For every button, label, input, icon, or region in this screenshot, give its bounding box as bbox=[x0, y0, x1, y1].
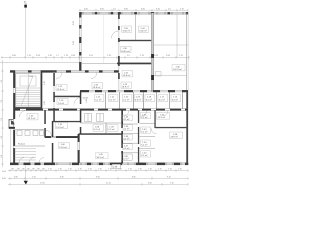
WC stalls x84-104 y113-123 bbox=[85, 114, 104, 122]
svg-text:5.2 m²: 5.2 m² bbox=[141, 116, 147, 119]
svg-text:5.10: 5.10 bbox=[170, 183, 174, 185]
left inner wall line x10.8 bbox=[10, 129, 12, 163]
door arc above wall y137 bbox=[46, 130, 52, 136]
bath fixtures row1 bbox=[17, 131, 44, 136]
svg-text:15.9 m²: 15.9 m² bbox=[158, 116, 166, 119]
bath wall y146 x14-45 bbox=[14, 145, 45, 147]
svg-text:4.2 m²: 4.2 m² bbox=[123, 118, 129, 121]
svg-text:5.2 m²: 5.2 m² bbox=[141, 130, 147, 133]
svg-text:13.9 m²: 13.9 m² bbox=[56, 126, 64, 129]
bottom row1 numbers bbox=[11, 169, 182, 171]
svg-text:29.9 m²: 29.9 m² bbox=[171, 135, 179, 138]
wall y127.5 x139-188 bbox=[151, 127, 188, 134]
svg-text:5.2 m²: 5.2 m² bbox=[108, 128, 114, 131]
svg-text:18.63 m²: 18.63 m² bbox=[121, 50, 130, 53]
svg-text:4.2 m²: 4.2 m² bbox=[123, 147, 129, 150]
svg-text:.88: .88 bbox=[27, 169, 30, 171]
door arcs above bottom wall bbox=[19, 158, 44, 163]
svg-text:9.10: 9.10 bbox=[167, 177, 171, 179]
svg-text:13.9 m²: 13.9 m² bbox=[57, 88, 65, 91]
wall y40.5 x119-152 bbox=[119, 40, 152, 41]
bottom dimension row3 bbox=[8, 183, 188, 186]
svg-text:1.76: 1.76 bbox=[148, 169, 152, 171]
svg-text:1.76: 1.76 bbox=[128, 169, 132, 171]
svg-text:3.80: 3.80 bbox=[14, 177, 18, 179]
svg-text:17.56: 17.56 bbox=[40, 183, 45, 185]
corridor south wall y121.5 x52-80.5 bbox=[52, 121, 81, 122]
bottom left small text bbox=[2, 171, 7, 180]
svg-text:1.76: 1.76 bbox=[158, 169, 162, 171]
partition x135.5 y14-40 bbox=[135, 14, 137, 40]
vertical wall x138.5 y110-163 bbox=[138, 110, 139, 164]
bottom row2 numbers bbox=[14, 177, 171, 179]
svg-text:1.76: 1.76 bbox=[68, 169, 72, 171]
room labels middle row bbox=[95, 95, 181, 102]
svg-text:1.76: 1.76 bbox=[138, 169, 142, 171]
mid dimension line y57.5 bbox=[1, 56, 189, 59]
vertical wall x155 y110-128 bbox=[154, 110, 155, 128]
stairs bbox=[16, 74, 41, 108]
bottom dimension row1 bbox=[8, 169, 188, 172]
svg-text:9.4 m²: 9.4 m² bbox=[159, 98, 165, 101]
vertical wall x80.5 y92-134 bbox=[80, 92, 82, 134]
svg-text:5.2 m²: 5.2 m² bbox=[109, 98, 115, 101]
svg-text:1.76: 1.76 bbox=[88, 169, 92, 171]
svg-text:1.76: 1.76 bbox=[98, 169, 102, 171]
svg-text:7.9 m²: 7.9 m² bbox=[58, 102, 64, 105]
svg-text:1.88: 1.88 bbox=[44, 101, 46, 105]
divider x106 y123-134 bbox=[105, 123, 107, 134]
svg-text:18.9 m²: 18.9 m² bbox=[93, 86, 101, 89]
svg-text:8.60: 8.60 bbox=[132, 177, 136, 179]
svg-text:.88: .88 bbox=[11, 169, 14, 171]
room labels left bbox=[27, 85, 118, 159]
faint partition x103.5 in big room bbox=[103, 14, 105, 63]
svg-text:14.2 m²: 14.2 m² bbox=[28, 117, 36, 120]
svg-text:1.05: 1.05 bbox=[29, 76, 33, 78]
hall 1.30 thin lines bbox=[154, 14, 188, 76]
ramp hatch strip bbox=[15, 149, 37, 160]
svg-text:9.4 m²: 9.4 m² bbox=[172, 98, 178, 101]
bottom dimension row2 bbox=[8, 177, 188, 180]
svg-text:1.76: 1.76 bbox=[168, 169, 172, 171]
stairwell bottom wall bbox=[14, 107, 42, 109]
svg-text:4.2 m²: 4.2 m² bbox=[123, 128, 129, 131]
upper-left outer wall x80 y13-71 bbox=[79, 13, 81, 71]
svg-text:5.2 m²: 5.2 m² bbox=[95, 98, 101, 101]
top dimension line bbox=[79, 9, 188, 12]
svg-text:8.40: 8.40 bbox=[60, 177, 64, 179]
left entry jog with arc bbox=[9, 120, 15, 129]
svg-text:1.76: 1.76 bbox=[58, 169, 62, 171]
vertical wall x54 y71-121.5 bbox=[53, 71, 55, 122]
wall y91 x80-188 bbox=[80, 90, 188, 92]
section marker T1 top bbox=[24, 2, 27, 57]
svg-text:Rampe: Rampe bbox=[18, 144, 26, 146]
stairwell right wall x41.5 bbox=[41, 72, 43, 109]
outside pavement line y62.5 bbox=[0, 62, 79, 64]
vertical wall x52.5 y121-163 bbox=[52, 121, 54, 164]
svg-text:.88: .88 bbox=[22, 169, 25, 171]
svg-text:4.2 m²: 4.2 m² bbox=[123, 137, 129, 140]
top outer wall y13 x80-188 bbox=[79, 12, 188, 14]
svg-text:5.2 m²: 5.2 m² bbox=[141, 143, 147, 146]
svg-text:.88: .88 bbox=[17, 169, 20, 171]
svg-text:2.43: 2.43 bbox=[44, 81, 46, 85]
svg-text:12.15: 12.15 bbox=[106, 183, 111, 185]
svg-text:5.60 m²: 5.60 m² bbox=[123, 29, 131, 32]
interior vertical wall x119 y14-91 bbox=[118, 14, 120, 91]
vertical dim labels along x80 wall bbox=[73, 20, 75, 45]
svg-text:.88: .88 bbox=[42, 169, 45, 171]
svg-text:5.2 m²: 5.2 m² bbox=[123, 98, 129, 101]
mid dimension numbers bbox=[12, 55, 184, 57]
bath wall y129.5 x14-45 bbox=[14, 129, 45, 131]
section marker bottom bbox=[24, 166, 28, 185]
svg-text:.88: .88 bbox=[37, 169, 40, 171]
svg-text:9.60: 9.60 bbox=[96, 177, 100, 179]
svg-text:9.4 m²: 9.4 m² bbox=[146, 98, 152, 101]
room labels right cluster bbox=[122, 113, 183, 161]
room labels upper bbox=[92, 26, 185, 89]
svg-text:1.76: 1.76 bbox=[178, 169, 182, 171]
left outer wall x14 y71-163 bbox=[13, 71, 15, 164]
svg-text:1.76: 1.76 bbox=[78, 169, 82, 171]
svg-text:5.60 m²: 5.60 m² bbox=[139, 29, 147, 32]
svg-text:3.85: 3.85 bbox=[148, 183, 152, 185]
svg-text:1.76: 1.76 bbox=[108, 169, 112, 171]
wall y96.5 x53.5-80.5 bbox=[54, 96, 82, 98]
svg-text:101.9 m²: 101.9 m² bbox=[173, 68, 182, 71]
col2 partitions x139-155 bbox=[140, 124, 156, 149]
svg-text:1.76: 1.76 bbox=[118, 169, 122, 171]
central gray double wall x152.5 y13-92 bbox=[151, 13, 161, 92]
svg-text:5.2 m²: 5.2 m² bbox=[141, 154, 147, 157]
vertical wall x45 y110-137 bbox=[44, 110, 46, 138]
door arcs below corridor wall bbox=[20, 73, 169, 118]
right outer wall x187 bbox=[186, 13, 188, 165]
svg-text:13.9 m²: 13.9 m² bbox=[59, 146, 67, 149]
vertical wall x78.5 y134-163 bbox=[78, 134, 80, 163]
svg-text:4.2 m²: 4.2 m² bbox=[122, 157, 128, 160]
small rooms row dividers y92-109 bbox=[106, 92, 183, 109]
wall y71 x10-119 bbox=[10, 70, 119, 72]
svg-text:30.5 m²: 30.5 m² bbox=[97, 156, 105, 159]
col1 partitions x122-138 bbox=[123, 124, 138, 153]
bottom wall window jamb ticks bbox=[57, 162, 181, 165]
top dimension numbers bbox=[84, 9, 185, 11]
corridor wall y109.5 x14-188 bbox=[14, 109, 188, 111]
svg-text:5.2 m²: 5.2 m² bbox=[94, 128, 100, 131]
svg-text:±0.00: ±0.00 bbox=[83, 98, 89, 100]
top wall window jamb ticks bbox=[83, 12, 183, 15]
wall y137 x45-78.5 bbox=[45, 136, 79, 138]
wall y123 x80-122 bbox=[81, 122, 123, 124]
svg-text:18.9 m²: 18.9 m² bbox=[122, 85, 130, 88]
svg-text:1.76: 1.76 bbox=[48, 169, 52, 171]
svg-text:16.9 m²: 16.9 m² bbox=[123, 74, 131, 77]
interior wall y63.5 x80-152 bbox=[81, 63, 153, 65]
left dimension numbers rotated bbox=[1, 79, 3, 158]
svg-text:.88: .88 bbox=[32, 169, 35, 171]
vertical wall x122 y110-163 bbox=[121, 110, 123, 164]
door arc into big room x119 bbox=[112, 31, 119, 38]
corridor dim texts bbox=[44, 81, 88, 105]
left dimension vertical line bbox=[1, 60, 4, 167]
svg-text:3.9 m²: 3.9 m² bbox=[135, 98, 141, 101]
svg-text:1.44: 1.44 bbox=[86, 99, 88, 103]
exit door label box bbox=[112, 164, 121, 168]
wall y134 x78.5-122 bbox=[79, 133, 123, 135]
bottom outer wall y163.7 bbox=[10, 163, 188, 166]
svg-text:5.20: 5.20 bbox=[32, 177, 36, 179]
